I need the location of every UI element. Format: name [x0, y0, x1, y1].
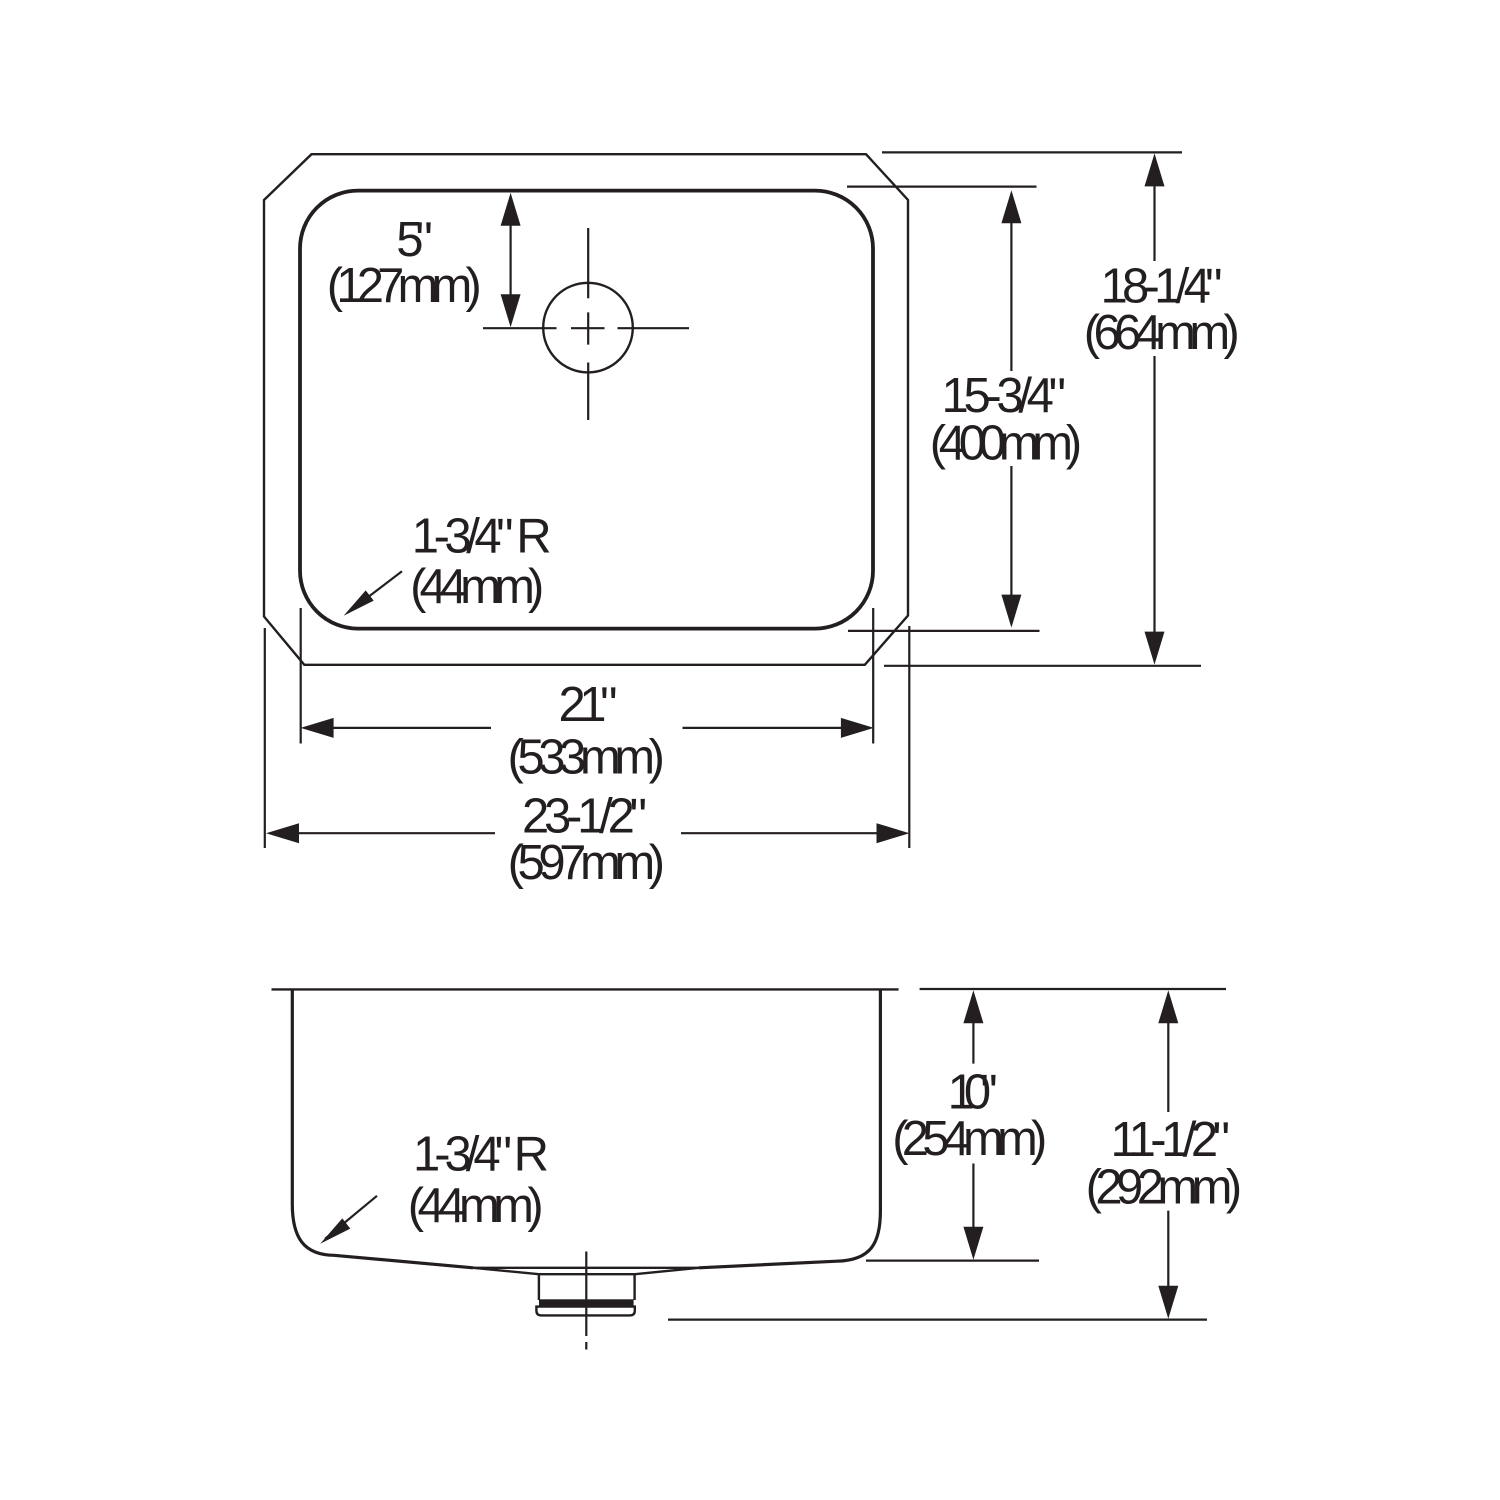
svg-text:21": 21" — [559, 678, 618, 732]
svg-text:15-3/4": 15-3/4" — [942, 369, 1067, 423]
svg-text:11-1/2": 11-1/2" — [1111, 1113, 1231, 1167]
svg-text:(664mm): (664mm) — [1084, 306, 1240, 360]
svg-text:(127mm): (127mm) — [327, 259, 482, 313]
svg-text:(254mm): (254mm) — [892, 1112, 1047, 1166]
svg-text:1-3/4" R: 1-3/4" R — [413, 1128, 549, 1182]
svg-text:(292mm): (292mm) — [1086, 1161, 1243, 1215]
svg-text:(400mm): (400mm) — [930, 417, 1082, 471]
svg-text:(597mm): (597mm) — [508, 836, 665, 890]
svg-text:(44mm): (44mm) — [408, 1179, 544, 1233]
svg-text:1-3/4" R: 1-3/4" R — [412, 510, 552, 564]
svg-text:(44mm): (44mm) — [410, 560, 544, 614]
svg-text:(533mm): (533mm) — [508, 731, 666, 785]
